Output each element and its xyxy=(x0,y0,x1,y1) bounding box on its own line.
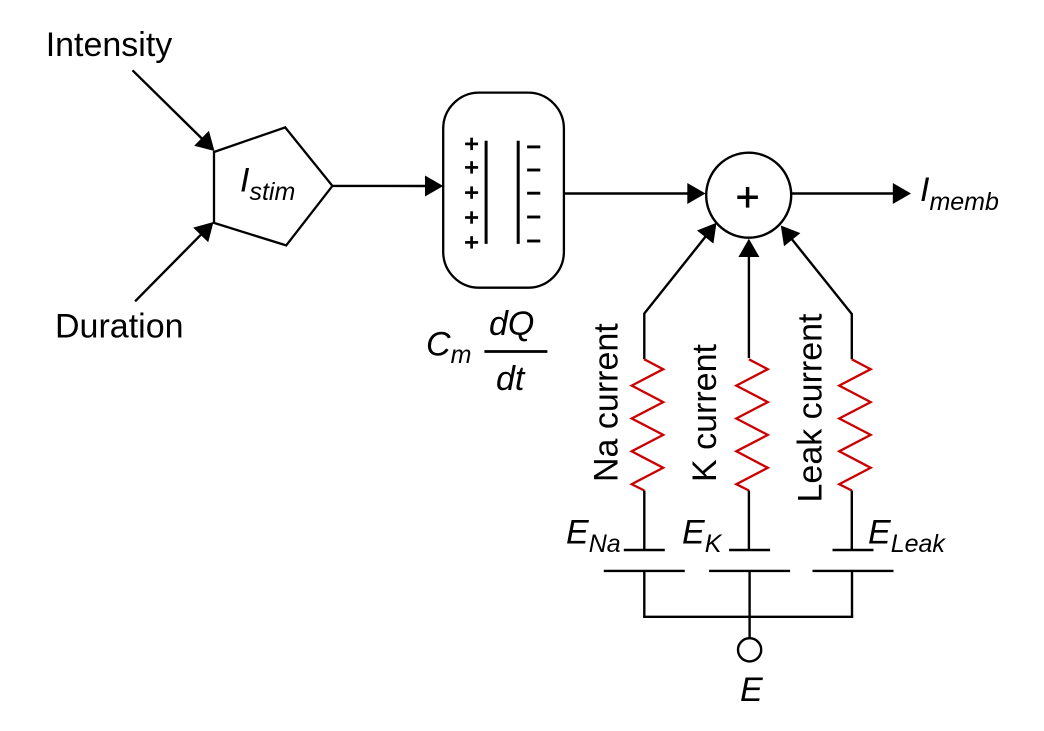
svg-text:Intensity: Intensity xyxy=(46,26,173,64)
svg-text:Leak current: Leak current xyxy=(792,313,830,503)
svg-text:Duration: Duration xyxy=(55,307,184,345)
wire arrow Leak current into summer xyxy=(781,226,852,360)
wire arrow Na current into summer xyxy=(644,223,716,359)
wire arrow capacitor to summer xyxy=(564,183,706,204)
minus charges xyxy=(527,147,540,241)
battery K xyxy=(709,550,790,571)
wire arrow Intensity to I_stim xyxy=(133,70,215,151)
plus sign in summer xyxy=(737,187,758,208)
capacitor left plate xyxy=(485,141,488,244)
wire Na battery to bus xyxy=(643,571,645,617)
wire bottom bus xyxy=(643,616,853,618)
wire K resistor to battery xyxy=(748,491,750,551)
svg-text:K current: K current xyxy=(686,344,724,482)
stimulus block I_stim (pentagon) xyxy=(214,127,332,245)
svg-text:dQ: dQ xyxy=(489,305,534,343)
wire arrow K current into summer xyxy=(738,239,759,358)
fraction bar xyxy=(484,350,547,353)
resistor Na conductance xyxy=(632,359,664,490)
svg-text:Na current: Na current xyxy=(588,323,626,482)
capacitor block Cm (membrane) xyxy=(443,93,564,288)
wire Leak battery to bus xyxy=(851,571,853,617)
wire arrow I_stim to capacitor xyxy=(332,176,443,197)
node E terminal circle xyxy=(738,638,761,661)
wire arrow summer to I_memb xyxy=(791,183,911,204)
battery Leak xyxy=(813,550,894,571)
capacitor right plate xyxy=(517,141,520,244)
battery Na xyxy=(604,550,685,571)
summing junction circle xyxy=(706,153,791,238)
plus charges xyxy=(465,138,478,249)
wire Na resistor to battery xyxy=(643,491,645,551)
resistor Leak conductance xyxy=(839,359,871,490)
wire Leak resistor to battery xyxy=(851,491,853,551)
svg-text:E: E xyxy=(740,671,763,709)
svg-text:dt: dt xyxy=(496,360,526,398)
wire arrow Duration to I_stim xyxy=(135,222,213,301)
resistor K conductance xyxy=(736,359,768,490)
wire K battery to node E xyxy=(748,571,750,638)
